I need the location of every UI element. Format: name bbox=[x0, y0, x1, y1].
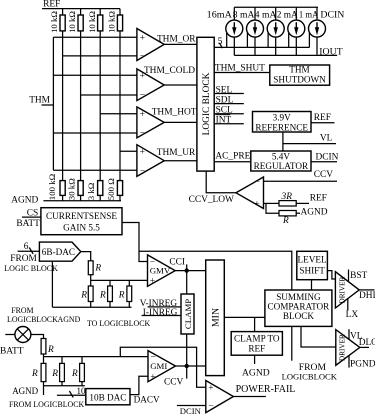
svg-text:3 kΩ: 3 kΩ bbox=[86, 182, 96, 200]
svg-text:AC_PRE: AC_PRE bbox=[215, 151, 250, 161]
svg-text:10B DAC: 10B DAC bbox=[89, 392, 126, 402]
svg-text:10 kΩ: 10 kΩ bbox=[87, 11, 97, 33]
svg-text:LOGICBLOCK: LOGICBLOCK bbox=[7, 315, 58, 324]
svg-text:10 kΩ: 10 kΩ bbox=[67, 11, 77, 33]
svg-text:+: + bbox=[150, 372, 155, 382]
svg-text:DACV: DACV bbox=[134, 395, 160, 405]
svg-text:R: R bbox=[99, 290, 106, 300]
svg-text:SEL: SEL bbox=[216, 85, 233, 95]
svg-text:LEVEL: LEVEL bbox=[298, 255, 327, 265]
svg-text:5.4V: 5.4V bbox=[272, 151, 290, 161]
svg-text:INT: INT bbox=[216, 116, 232, 126]
svg-text:10 kΩ: 10 kΩ bbox=[49, 11, 59, 33]
svg-text:AGND: AGND bbox=[301, 208, 328, 218]
svg-text:CS: CS bbox=[27, 209, 38, 219]
svg-text:LX: LX bbox=[346, 310, 359, 320]
svg-text:LOGIC BLOCK: LOGIC BLOCK bbox=[202, 72, 212, 135]
svg-text:BST: BST bbox=[350, 271, 367, 281]
svg-text:I-INREG: I-INREG bbox=[143, 308, 178, 318]
svg-text:CCV: CCV bbox=[314, 170, 334, 180]
svg-text:30 kΩ: 30 kΩ bbox=[67, 178, 77, 200]
svg-text:SHIFT: SHIFT bbox=[299, 266, 325, 276]
svg-text:DRIVER: DRIVER bbox=[339, 334, 347, 361]
svg-text:6: 6 bbox=[24, 242, 29, 252]
svg-text:+: + bbox=[254, 200, 259, 210]
svg-text:CCV_LOW: CCV_LOW bbox=[189, 195, 234, 205]
svg-text:−: − bbox=[255, 177, 260, 187]
svg-text:FROM: FROM bbox=[10, 254, 37, 264]
svg-text:DLO: DLO bbox=[359, 338, 375, 348]
svg-text:CCI: CCI bbox=[169, 257, 185, 267]
svg-text:DRIVER: DRIVER bbox=[338, 277, 346, 304]
svg-text:CLAMP TO: CLAMP TO bbox=[234, 333, 280, 343]
svg-text:REFERENCE: REFERENCE bbox=[255, 122, 308, 132]
svg-text:500 Ω: 500 Ω bbox=[106, 178, 116, 200]
svg-text:−: − bbox=[140, 91, 145, 101]
svg-text:THM_UR: THM_UR bbox=[157, 148, 196, 158]
svg-text:COMPARATOR: COMPARATOR bbox=[268, 302, 331, 312]
svg-text:THM_HOT: THM_HOT bbox=[152, 107, 197, 117]
svg-text:LOGICBLOCK: LOGICBLOCK bbox=[282, 371, 338, 381]
svg-text:SCL: SCL bbox=[216, 106, 233, 116]
svg-text:REF: REF bbox=[43, 0, 60, 9]
svg-text:2 mA: 2 mA bbox=[277, 11, 298, 21]
svg-text:AGND: AGND bbox=[242, 367, 270, 378]
svg-text:−: − bbox=[140, 52, 145, 62]
svg-text:BATT: BATT bbox=[16, 219, 40, 229]
svg-text:+: + bbox=[140, 110, 145, 120]
svg-text:DCIN: DCIN bbox=[320, 11, 344, 21]
svg-text:REF: REF bbox=[310, 193, 327, 203]
svg-text:R: R bbox=[94, 264, 101, 274]
svg-text:AGND: AGND bbox=[11, 196, 38, 206]
svg-text:MIN: MIN bbox=[211, 308, 222, 327]
svg-text:DHI: DHI bbox=[359, 291, 375, 301]
svg-text:16mA: 16mA bbox=[207, 11, 232, 21]
svg-text:THM_SHUT: THM_SHUT bbox=[215, 63, 265, 73]
svg-text:DCIN: DCIN bbox=[180, 406, 202, 415]
svg-text:THM_COLD: THM_COLD bbox=[144, 66, 195, 76]
svg-text:100 kΩ: 100 kΩ bbox=[47, 173, 57, 200]
svg-text:AGND: AGND bbox=[58, 315, 81, 324]
svg-text:R: R bbox=[31, 369, 38, 379]
svg-text:6B-DAC: 6B-DAC bbox=[42, 247, 75, 257]
svg-text:REF: REF bbox=[314, 113, 331, 123]
svg-text:BLOCK: BLOCK bbox=[283, 311, 315, 321]
svg-text:PGND: PGND bbox=[350, 360, 375, 370]
svg-text:THM: THM bbox=[289, 65, 309, 75]
svg-text:IOUT: IOUT bbox=[319, 48, 343, 58]
svg-text:+: + bbox=[140, 147, 145, 157]
svg-text:8 mA: 8 mA bbox=[233, 11, 255, 21]
svg-text:CLAMP: CLAMP bbox=[183, 299, 193, 329]
svg-text:DCIN: DCIN bbox=[316, 153, 339, 163]
svg-text:3R: 3R bbox=[281, 192, 293, 202]
svg-text:POWER-FAIL: POWER-FAIL bbox=[236, 384, 296, 395]
svg-text:10 kΩ: 10 kΩ bbox=[107, 11, 117, 33]
svg-text:VL: VL bbox=[320, 134, 333, 144]
svg-text:+: + bbox=[208, 384, 213, 394]
svg-text:10: 10 bbox=[77, 386, 87, 396]
svg-text:1 mA: 1 mA bbox=[299, 11, 319, 21]
svg-text:R: R bbox=[282, 216, 289, 226]
svg-text:−: − bbox=[140, 166, 145, 176]
svg-text:BATT: BATT bbox=[0, 346, 24, 356]
svg-text:SHUTDOWN: SHUTDOWN bbox=[273, 74, 326, 84]
svg-text:+: + bbox=[150, 276, 155, 286]
svg-text:GMI: GMI bbox=[150, 361, 167, 371]
svg-text:GAIN 5.5: GAIN 5.5 bbox=[63, 222, 100, 232]
svg-text:AGND: AGND bbox=[12, 386, 38, 396]
svg-text:CURRENTSENSE: CURRENTSENSE bbox=[46, 211, 117, 221]
svg-text:FROM LOGICBLOCK: FROM LOGICBLOCK bbox=[9, 400, 84, 409]
svg-text:+: + bbox=[140, 33, 145, 43]
svg-text:REGULATOR: REGULATOR bbox=[254, 161, 309, 171]
svg-text:THM_OR: THM_OR bbox=[157, 34, 196, 44]
svg-text:LOGIC BLOCK: LOGIC BLOCK bbox=[4, 264, 58, 273]
svg-text:R: R bbox=[51, 369, 58, 379]
svg-text:REF: REF bbox=[248, 344, 265, 354]
svg-text:3.9V: 3.9V bbox=[273, 113, 291, 123]
svg-text:−: − bbox=[208, 402, 213, 412]
svg-text:5: 5 bbox=[218, 37, 223, 47]
svg-text:R: R bbox=[71, 369, 78, 379]
svg-text:R: R bbox=[80, 290, 87, 300]
svg-text:R: R bbox=[47, 345, 54, 355]
svg-text:THM: THM bbox=[29, 95, 50, 105]
svg-text:GMV: GMV bbox=[150, 266, 171, 276]
svg-text:−: − bbox=[140, 129, 145, 139]
svg-text:SDL: SDL bbox=[216, 96, 234, 106]
svg-text:4 mA: 4 mA bbox=[255, 11, 277, 21]
svg-text:R: R bbox=[118, 290, 125, 300]
svg-text:TO LOGICBLOCK: TO LOGICBLOCK bbox=[87, 319, 150, 328]
svg-text:CCV: CCV bbox=[164, 378, 184, 388]
